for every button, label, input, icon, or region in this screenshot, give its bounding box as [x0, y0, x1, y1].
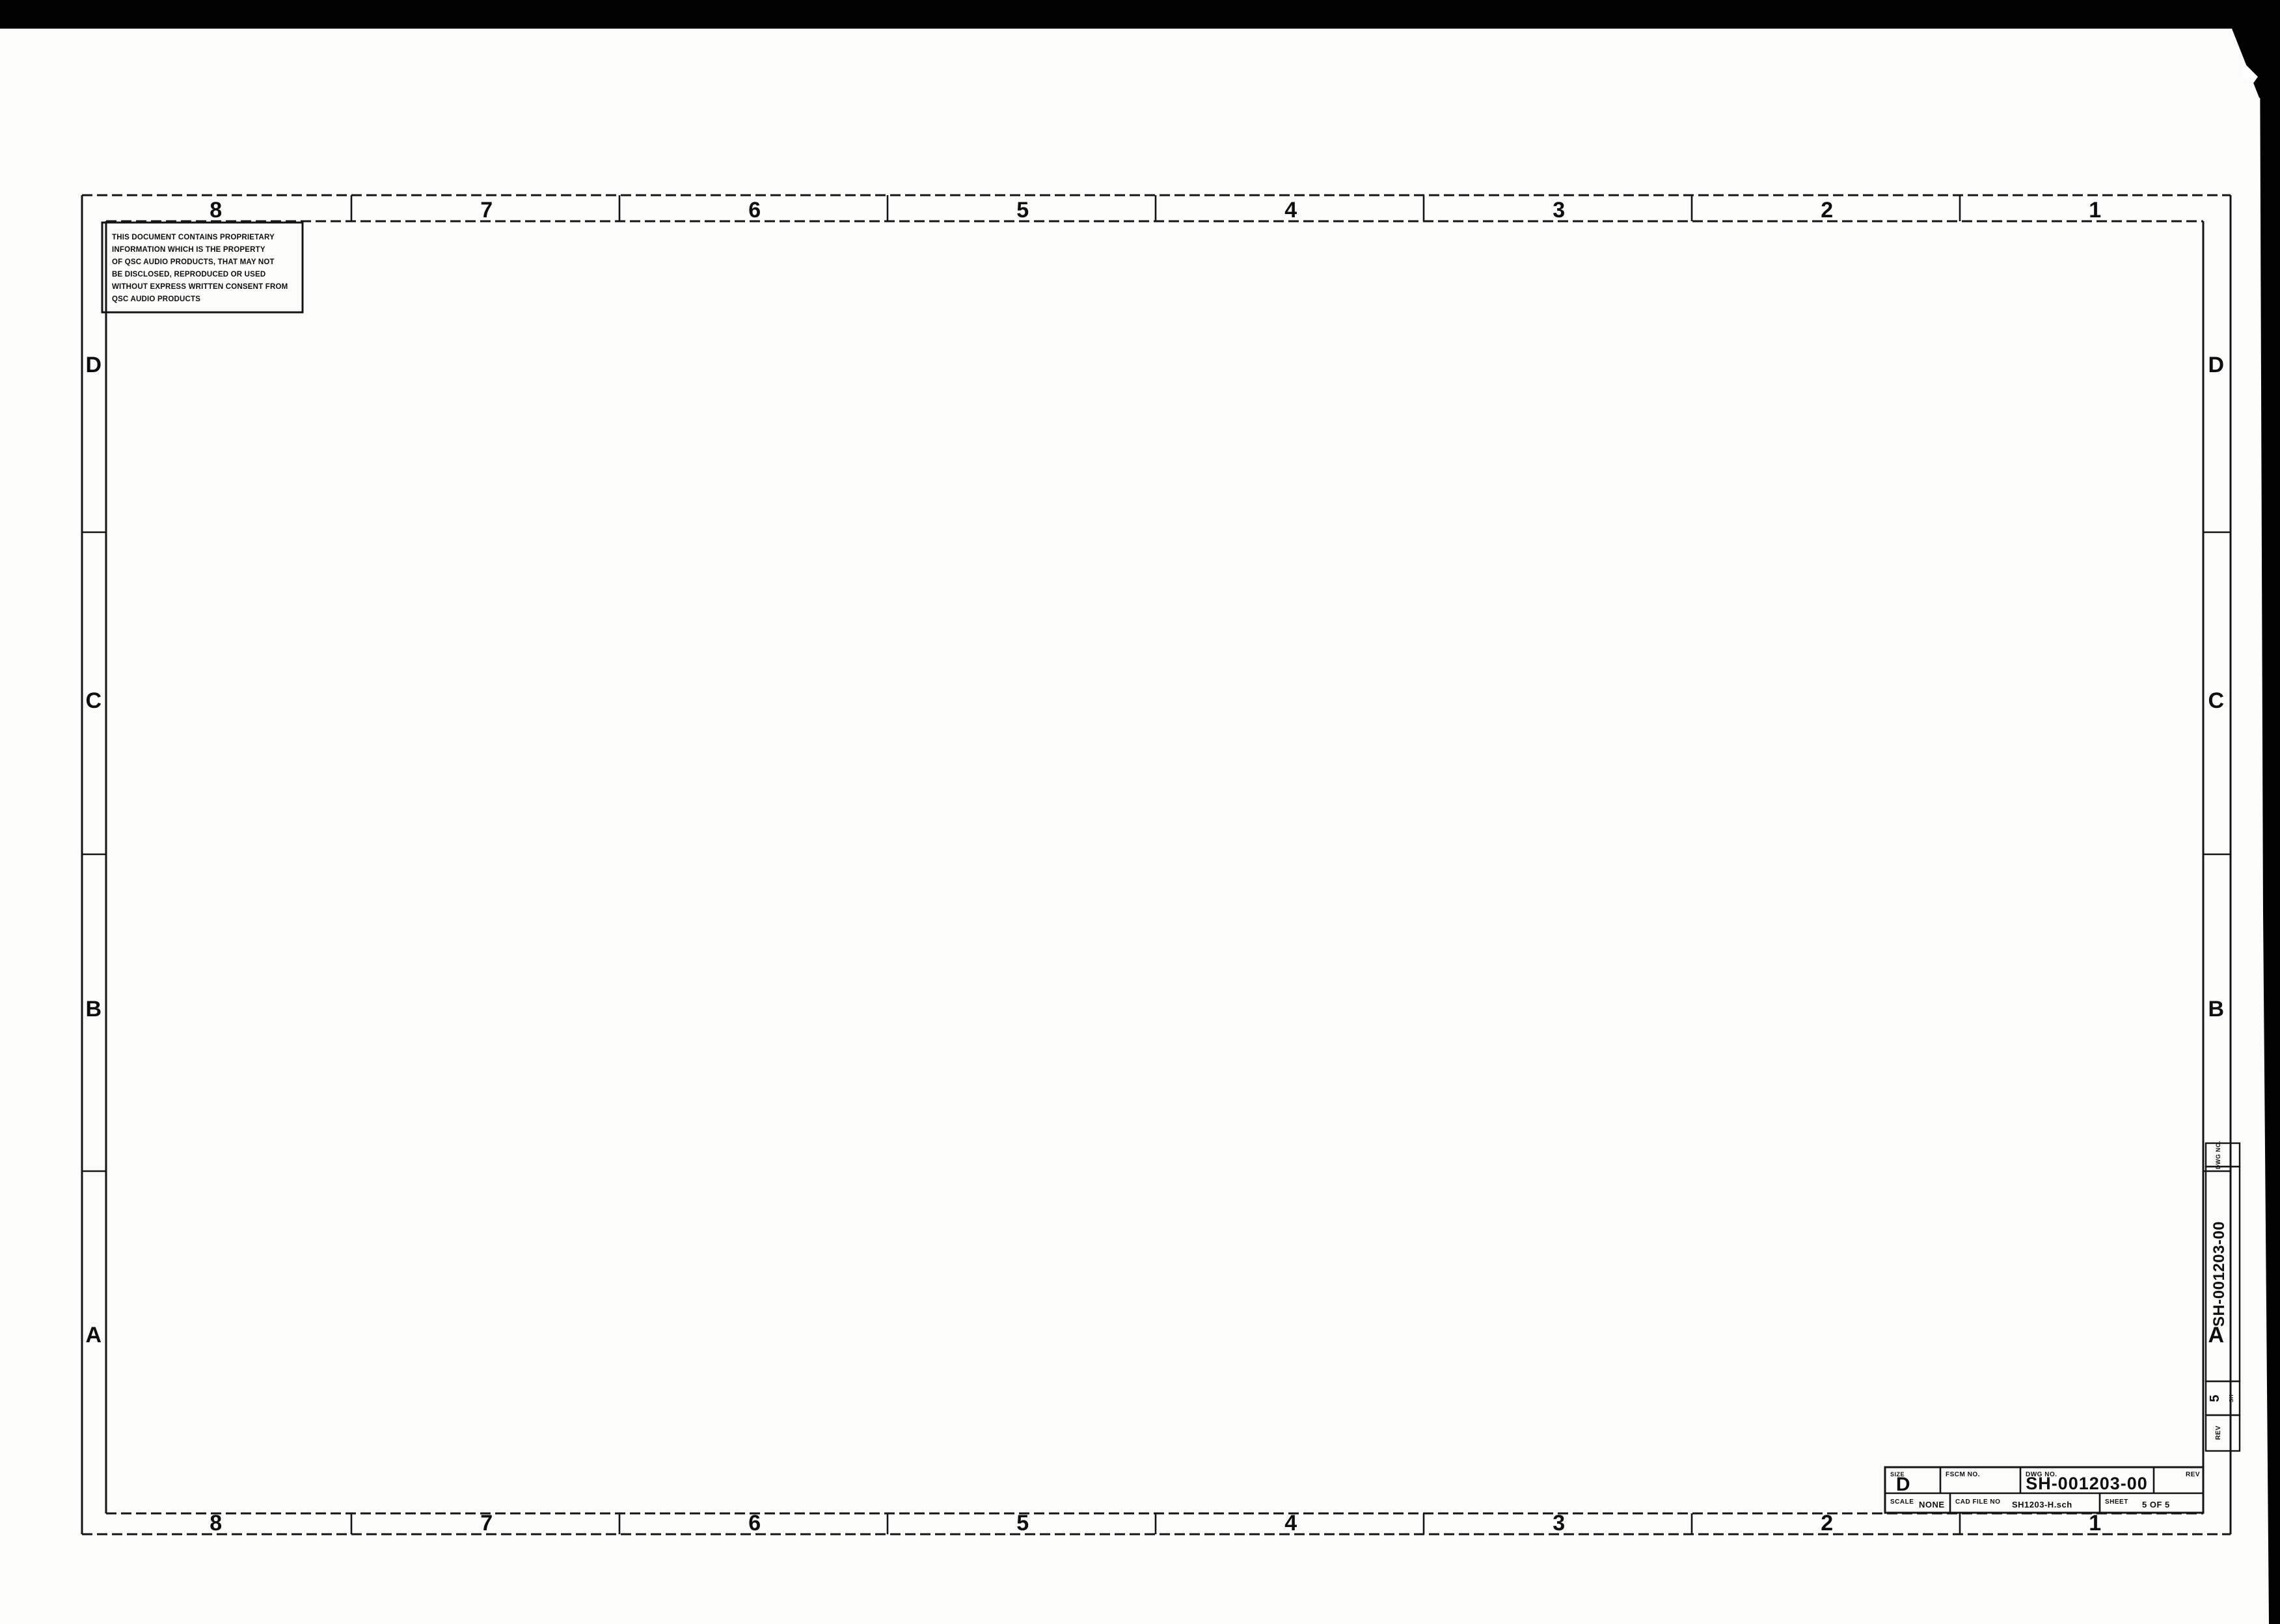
svg-text:4: 4	[1284, 198, 1297, 223]
svg-text:SH-001203-00: SH-001203-00	[2210, 1221, 2228, 1327]
svg-text:C: C	[2208, 688, 2224, 713]
svg-text:INFORMATION WHICH IS THE PROPE: INFORMATION WHICH IS THE PROPERTY	[112, 246, 265, 254]
svg-text:D: D	[1896, 1474, 1910, 1495]
svg-text:CAD FILE NO: CAD FILE NO	[1955, 1498, 2000, 1506]
svg-text:C: C	[85, 688, 102, 713]
svg-text:OF QSC AUDIO PRODUCTS, THAT MA: OF QSC AUDIO PRODUCTS, THAT MAY NOT	[112, 258, 275, 266]
svg-text:6: 6	[748, 1511, 761, 1536]
svg-text:7: 7	[480, 198, 493, 223]
svg-text:REV: REV	[2186, 1471, 2200, 1478]
svg-text:THIS DOCUMENT CONTAINS PROPRIE: THIS DOCUMENT CONTAINS PROPRIETARY	[112, 234, 275, 241]
svg-text:8: 8	[210, 198, 222, 223]
svg-text:SH1203-H.sch: SH1203-H.sch	[2012, 1500, 2072, 1509]
svg-text:1: 1	[2089, 1511, 2101, 1536]
svg-text:6: 6	[748, 198, 761, 223]
svg-text:QSC AUDIO PRODUCTS: QSC AUDIO PRODUCTS	[112, 295, 200, 303]
svg-text:3: 3	[1553, 1511, 1565, 1536]
svg-text:B: B	[2208, 997, 2224, 1022]
svg-text:2: 2	[1821, 198, 1833, 223]
svg-text:D: D	[2208, 353, 2224, 377]
svg-text:2: 2	[1821, 1511, 1833, 1536]
svg-text:5: 5	[1016, 1511, 1029, 1536]
svg-text:7: 7	[480, 1511, 493, 1536]
svg-text:SHEET: SHEET	[2105, 1498, 2128, 1506]
svg-text:DWG NO.: DWG NO.	[2215, 1141, 2221, 1169]
svg-text:8: 8	[210, 1511, 222, 1536]
svg-text:5: 5	[1016, 198, 1029, 223]
svg-text:SH-001203-00: SH-001203-00	[2026, 1474, 2148, 1493]
svg-text:SCALE: SCALE	[1890, 1498, 1914, 1506]
svg-text:WITHOUT EXPRESS WRITTEN CONSEN: WITHOUT EXPRESS WRITTEN CONSENT FROM	[112, 283, 288, 291]
svg-text:3: 3	[1553, 198, 1565, 223]
svg-text:BE DISCLOSED, REPRODUCED OR US: BE DISCLOSED, REPRODUCED OR USED	[112, 271, 265, 278]
svg-text:B: B	[85, 997, 102, 1022]
svg-text:4: 4	[1284, 1511, 1297, 1536]
svg-text:SH: SH	[2229, 1394, 2234, 1402]
svg-text:5 OF 5: 5 OF 5	[2142, 1500, 2170, 1509]
svg-text:A: A	[85, 1323, 102, 1347]
svg-text:FSCM NO.: FSCM NO.	[1946, 1471, 1980, 1478]
svg-text:5: 5	[2208, 1394, 2222, 1402]
svg-text:1: 1	[2089, 198, 2101, 223]
svg-text:NONE: NONE	[1919, 1500, 1945, 1509]
svg-text:REV: REV	[2215, 1426, 2222, 1440]
svg-text:D: D	[85, 353, 102, 377]
